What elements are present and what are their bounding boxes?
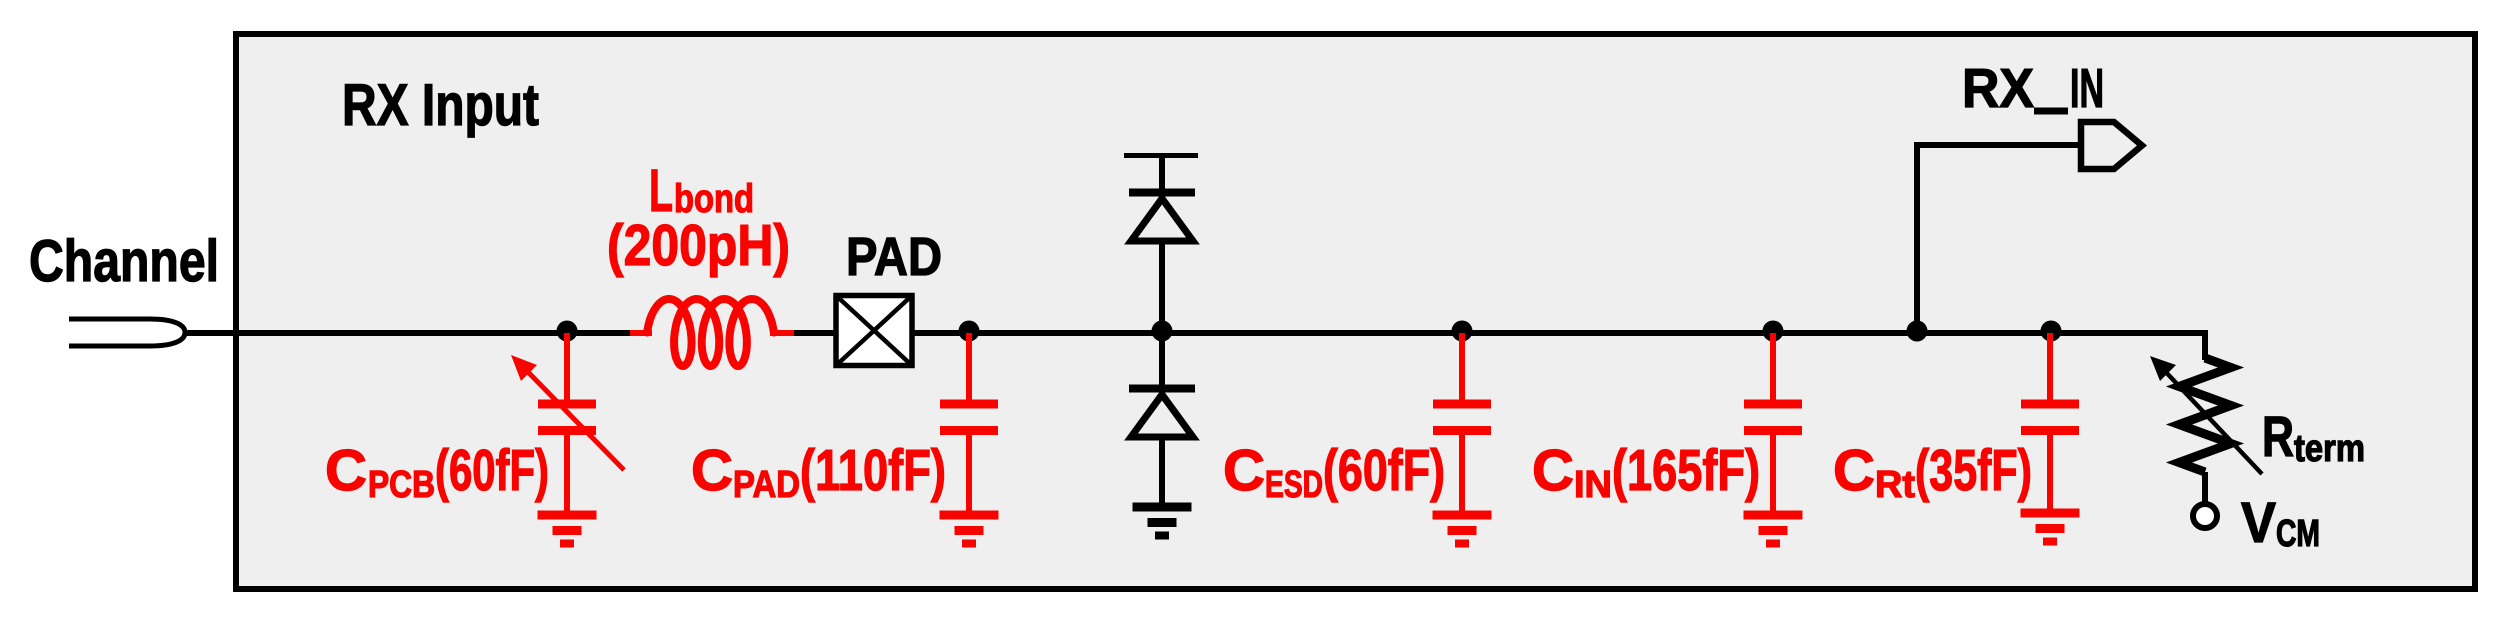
wire: PAD to R_term corner	[912, 330, 2205, 336]
wire rail to D1	[1159, 155, 1165, 192]
capacitor C_PAD	[966, 333, 972, 404]
svg-text:C: C	[1833, 438, 1875, 503]
ground of C_PAD	[940, 511, 999, 520]
ground of C_IN	[1744, 511, 1803, 520]
variable arrow across C_PCB	[511, 355, 624, 470]
diode D1 (to rail)	[1129, 189, 1195, 197]
wire to RX_IN port	[1917, 145, 2083, 331]
capacitor C_PCB	[564, 333, 570, 404]
svg-text:(200pH): (200pH)	[607, 213, 790, 278]
svg-text:PAD: PAD	[846, 227, 942, 287]
wire D1 to node C	[1159, 241, 1165, 385]
svg-text:PCB: PCB	[368, 464, 435, 506]
svg-text:(110fF): (110fF)	[800, 438, 946, 503]
ESD supply rail	[1124, 153, 1198, 158]
wire: L_bond to PAD	[794, 330, 835, 336]
svg-text:RX Input: RX Input	[342, 72, 539, 138]
svg-text:PAD: PAD	[733, 464, 800, 506]
svg-text:RX: RX	[1962, 57, 2034, 119]
svg-text:V: V	[2241, 491, 2276, 555]
svg-text:Channel: Channel	[29, 228, 219, 294]
variable arrow across R_term	[2150, 356, 2262, 474]
svg-text:R: R	[2262, 405, 2294, 469]
wire red segment right of L_bond	[770, 330, 797, 336]
wire R_term to V_CM terminal	[2202, 472, 2208, 504]
svg-text:C: C	[691, 438, 733, 503]
node A (C_PCB junction)	[557, 321, 578, 342]
svg-text:(60fF): (60fF)	[435, 438, 549, 503]
inductor L_bond	[647, 299, 774, 366]
capacitor C_Rt	[2047, 333, 2053, 404]
capacitor C_IN	[1770, 333, 1776, 404]
resistor R_term (zigzag)	[2179, 358, 2231, 472]
ground of C_ESD	[1433, 511, 1492, 520]
node B (C_PAD junction)	[959, 321, 980, 342]
svg-text:CM: CM	[2276, 513, 2320, 555]
diode D2 (to ground)	[1129, 385, 1195, 393]
node G (C_Rt junction)	[2041, 321, 2062, 342]
terminal V_CM (open circle)	[2193, 504, 2217, 528]
svg-text:IN: IN	[2070, 57, 2104, 119]
wire D2 to ground	[1159, 437, 1165, 505]
pad PAD (box with X)	[836, 296, 912, 366]
svg-text:IN: IN	[1574, 464, 1612, 506]
svg-text:term: term	[2294, 428, 2365, 470]
RX Input block box	[236, 34, 2475, 589]
svg-text:(60fF): (60fF)	[1323, 438, 1445, 503]
wire red segment left of L_bond	[630, 330, 652, 336]
RX_IN port symbol	[2081, 122, 2142, 169]
wire corner into R_term	[2199, 333, 2205, 360]
ground of C_PCB	[538, 511, 597, 520]
svg-text:C: C	[1532, 438, 1574, 503]
capacitor C_ESD	[1459, 333, 1465, 404]
node D (C_ESD junction)	[1452, 321, 1473, 342]
svg-text:C: C	[325, 438, 367, 503]
svg-text:Rt: Rt	[1875, 464, 1915, 506]
wire: channel to inductor	[185, 330, 634, 336]
ground of ESD	[1133, 503, 1192, 512]
svg-text:(165fF): (165fF)	[1612, 438, 1760, 503]
channel connector	[69, 319, 185, 346]
node F (RX_IN tap junction)	[1907, 321, 1928, 342]
svg-text:C: C	[1223, 438, 1265, 503]
ground of C_Rt	[2021, 509, 2080, 518]
svg-text:(35fF): (35fF)	[1915, 438, 2032, 503]
node E (C_IN junction)	[1763, 321, 1784, 342]
svg-text:ESD: ESD	[1265, 464, 1323, 506]
node C (ESD junction)	[1152, 321, 1173, 342]
